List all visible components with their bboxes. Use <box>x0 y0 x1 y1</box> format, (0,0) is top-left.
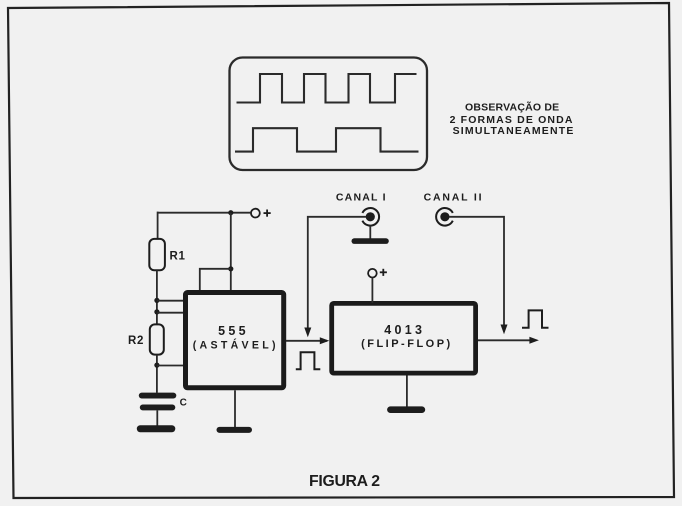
svg-text:C: C <box>180 398 187 409</box>
IC U1 555 <box>186 293 284 388</box>
wire pin 2 stub <box>157 365 184 367</box>
resistor R1 <box>149 239 165 270</box>
ground below C <box>137 425 176 432</box>
wire R2 to C <box>156 355 158 393</box>
arrow onto output line <box>501 325 508 335</box>
junction dot pin 7 <box>154 298 159 303</box>
wire R1 to R2 <box>156 270 158 324</box>
wire pin 7 stub <box>157 300 184 302</box>
wire rail to R1 <box>157 212 159 239</box>
annotation text <box>450 100 575 136</box>
arrow output <box>529 337 539 344</box>
wire pin 6 stub <box>157 312 184 314</box>
svg-text:(ASTÁVEL): (ASTÁVEL) <box>193 339 279 352</box>
plus sign <box>380 271 387 273</box>
wire 4013 output <box>478 339 531 341</box>
svg-text:OBSERVAÇÃO DE: OBSERVAÇÃO DE <box>465 100 559 113</box>
plus sign <box>264 212 271 214</box>
wire +V to pin 8 <box>230 213 232 291</box>
ground jack J1 <box>352 238 389 244</box>
waveform channel 2 <box>235 128 419 151</box>
junction dot <box>228 210 233 215</box>
svg-text:555: 555 <box>218 324 249 338</box>
capacitor C plate 1 <box>139 393 177 399</box>
svg-text:FIGURA 2: FIGURA 2 <box>309 473 380 490</box>
svg-text:R2: R2 <box>128 335 144 347</box>
IC U2 4013 <box>332 303 476 373</box>
jack J1 center pin <box>366 212 375 221</box>
ground below 555 <box>217 427 253 433</box>
wire 555 output to 4013 <box>286 340 327 342</box>
svg-text:(FLIP-FLOP): (FLIP-FLOP) <box>361 338 453 350</box>
wire +V rail <box>158 212 251 214</box>
wire pin 4 loop <box>200 269 231 291</box>
wire jack J1 to node <box>308 217 366 328</box>
wire jack J2 to output line <box>449 217 504 325</box>
+V terminal of 555 <box>251 209 260 218</box>
wire +V to 4013 <box>371 278 373 303</box>
ground below 4013 <box>387 406 425 413</box>
svg-text:4013: 4013 <box>384 323 425 337</box>
svg-text:R1: R1 <box>170 251 186 263</box>
capacitor C plate 2 <box>140 405 176 411</box>
wire jack J1 to ground <box>369 226 371 239</box>
+V terminal of 4013 <box>368 269 377 278</box>
pulse symbol at 555 output <box>296 352 321 369</box>
arrow into clock line <box>304 328 311 338</box>
junction dot pin 2 <box>154 363 159 368</box>
wire 555 to ground <box>234 390 236 428</box>
junction dot <box>228 266 233 271</box>
pulse symbol at 4013 output <box>522 310 549 327</box>
jack J1 ring <box>362 208 379 226</box>
resistor R2 <box>150 324 164 354</box>
arrow into 4013 clock <box>320 337 330 344</box>
wire C to ground <box>156 410 158 425</box>
oscilloscope display <box>230 58 428 171</box>
svg-text:CANAL II: CANAL II <box>424 191 484 203</box>
waveform channel 1 <box>237 74 417 103</box>
junction dot pin 6 <box>154 309 159 314</box>
svg-text:SIMULTANEAMENTE: SIMULTANEAMENTE <box>453 125 575 137</box>
svg-text:CANAL I: CANAL I <box>336 191 387 203</box>
wire 4013 to ground <box>406 376 408 407</box>
jack J2 ring <box>436 208 453 226</box>
jack J2 center pin <box>440 212 449 221</box>
